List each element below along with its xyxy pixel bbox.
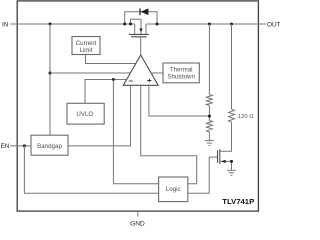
wire IN sense to amp <box>50 72 131 74</box>
svg-text:Limit: Limit <box>79 47 92 54</box>
box Thermal Shutdown <box>163 63 199 83</box>
ground Q2 <box>227 170 236 175</box>
transistor Q2 NMOS discharge gate bar <box>217 150 219 163</box>
wire amp plus to feedback tap <box>149 85 210 116</box>
node OUT divider tap <box>208 23 211 26</box>
transistor Q2 source arrow <box>221 160 226 163</box>
node diode right leg <box>156 23 159 26</box>
node EN junction <box>23 144 26 147</box>
wire EN pin to bandgap <box>10 145 31 147</box>
wire IN down to bandgap <box>49 24 51 135</box>
resistor R1 <box>206 95 212 106</box>
wire bandgap output to amp minus <box>68 85 131 146</box>
wire current limit to amp <box>86 55 136 64</box>
wire Q1 gate to error amp <box>140 37 142 55</box>
body diode D1 <box>140 8 148 15</box>
resistor R3 120 ohm <box>229 109 235 122</box>
wire R2 to ground <box>208 132 210 141</box>
node IN sense junction <box>49 72 52 75</box>
node feedback tap <box>208 115 211 118</box>
wire UVLO to amp <box>85 80 126 104</box>
wire R1 to tap <box>208 105 210 120</box>
wire body diode loop <box>125 12 157 24</box>
wire amp output to thermal shutdown <box>151 72 163 74</box>
wire amp center to logic <box>141 85 197 184</box>
svg-text:120 Ω: 120 Ω <box>238 114 254 120</box>
outer border frame <box>17 1 258 211</box>
wire pass FET source drop <box>134 24 136 34</box>
wire OUT down to 120 ohm <box>231 24 233 109</box>
transistor Q2 channel bar <box>219 149 221 164</box>
svg-text:OUT: OUT <box>267 21 280 28</box>
wire UVLO junction down to logic <box>113 80 158 184</box>
svg-text:Logic: Logic <box>166 186 181 193</box>
box Logic <box>159 177 188 202</box>
svg-text:UVLO: UVLO <box>76 111 93 118</box>
wire OUT down to R1 <box>208 24 210 95</box>
svg-text:Bandgap: Bandgap <box>37 143 62 150</box>
node bulk staple <box>129 23 132 26</box>
box Bandgap <box>31 135 68 155</box>
box Current Limit <box>72 37 100 55</box>
svg-text:EN: EN <box>1 143 10 150</box>
node UVLO-logic junction <box>112 78 115 81</box>
node OUT discharge tap <box>230 23 233 26</box>
pass transistor Q1 PMOS bulk staple <box>131 19 142 34</box>
svg-text:TLV741P: TLV741P <box>222 197 254 206</box>
wire Q2 source <box>220 161 232 170</box>
wire OUT rail <box>146 23 266 25</box>
wire logic to discharge gate <box>188 157 218 193</box>
pass transistor Q1 bulk arrow <box>140 28 143 32</box>
wire 120 ohm to discharge drain <box>220 122 232 151</box>
node diode left leg <box>123 23 126 26</box>
resistor R2 <box>206 121 212 132</box>
pass transistor Q1 channel bar <box>129 33 149 35</box>
pass transistor Q1 gate bar <box>131 36 147 38</box>
op-amp U1 error amplifier <box>123 55 158 85</box>
box UVLO <box>67 103 104 124</box>
svg-text:IN: IN <box>2 21 9 28</box>
wire EN down to logic <box>24 146 158 193</box>
node IN-bandgap junction <box>49 23 52 26</box>
wire IN rail <box>10 23 135 25</box>
svg-text:Shutdown: Shutdown <box>167 73 195 80</box>
wire pass FET drain drop <box>145 24 147 34</box>
svg-text:Thermal: Thermal <box>170 66 193 73</box>
svg-text:GND: GND <box>130 221 145 228</box>
wire GND pin stub <box>137 211 139 217</box>
node Q2 source junction <box>230 160 233 163</box>
ground R2 <box>205 141 214 146</box>
